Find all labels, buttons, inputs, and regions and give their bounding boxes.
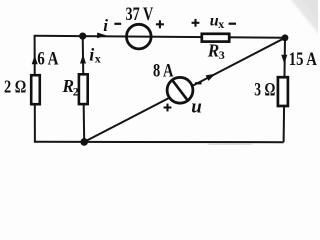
arrow: 15A on right branch: [281, 55, 287, 64]
wire: top rail: [35, 36, 285, 38]
svg-text:3: 3: [219, 48, 225, 62]
polarity plus right of 37V: [156, 23, 164, 25]
svg-text:u: u: [191, 97, 202, 118]
node dot: top-right junction: [282, 34, 289, 41]
resistor R3 body: [202, 34, 229, 42]
svg-text:2: 2: [73, 84, 79, 98]
wire: left branch: [34, 35, 36, 142]
svg-text:15 A: 15 A: [289, 49, 317, 70]
voltage source 37V circle: [127, 24, 152, 49]
svg-text:2 Ω: 2 Ω: [4, 77, 26, 97]
arrow: ix on R2 branch: [80, 54, 86, 63]
node dot: top junction a: [79, 33, 86, 40]
svg-text:x: x: [218, 17, 224, 31]
arrow: 6A on left branch: [32, 55, 38, 64]
arrow: current i on top rail: [97, 33, 106, 39]
polarity plus below 8A source: [164, 106, 172, 108]
resistor 2ohm body: [31, 75, 40, 104]
svg-text:i: i: [89, 45, 94, 65]
svg-text:37 V: 37 V: [126, 4, 154, 25]
polarity minus right of ux: [229, 23, 236, 25]
svg-text:i: i: [103, 16, 108, 35]
node dot: bottom junction: [80, 138, 88, 146]
svg-text:R: R: [207, 40, 219, 60]
svg-text:8 A: 8 A: [153, 61, 174, 82]
svg-text:x: x: [95, 52, 101, 66]
wire: right branch: [284, 38, 285, 142]
wire: bottom rail: [34, 141, 284, 143]
polarity plus left of ux: [192, 22, 200, 24]
polarity minus left of 37V: [114, 23, 121, 25]
resistor R2 body: [79, 74, 88, 104]
wire: R2 branch: [83, 36, 85, 142]
resistor 3ohm body: [278, 77, 288, 106]
current source 8A circle: [167, 77, 193, 103]
wire: diagonal branch: [84, 38, 285, 142]
smudge under bottom rail: [208, 143, 252, 146]
current source 8A slash: [172, 80, 188, 101]
svg-text:3 Ω: 3 Ω: [254, 80, 275, 101]
polarity minus right of 8A source: [195, 82, 202, 84]
page corner shading: [288, 0, 320, 38]
svg-text:6 A: 6 A: [37, 48, 59, 69]
arrow: 8A source on diagonal: [206, 74, 216, 81]
